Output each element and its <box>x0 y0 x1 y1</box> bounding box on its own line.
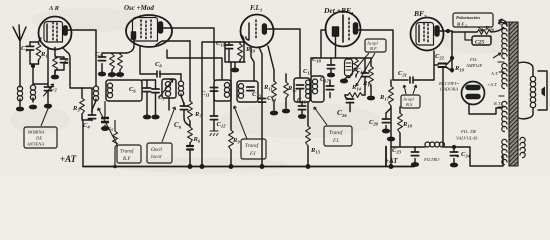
capacitor C16 <box>298 102 305 118</box>
capacitor C22 <box>434 59 452 71</box>
label box Polarizacion BF2 <box>453 13 510 31</box>
capacitor C10 <box>225 42 232 62</box>
IF transformer T1 primary box <box>214 80 231 101</box>
tube V2 inner can <box>133 18 158 42</box>
grid circuit of V3: wire <box>214 35 245 81</box>
bypass capacitor C3 <box>55 57 68 73</box>
tube V1 plate <box>64 26 68 35</box>
coupling capacitor C21 <box>393 51 434 83</box>
ground <box>271 111 278 114</box>
ground <box>99 72 106 75</box>
ground blob on rail riser <box>388 137 395 140</box>
capacitor C23 <box>411 147 418 163</box>
label box Transf RF <box>98 108 141 163</box>
blocking capacitor to rail <box>187 146 193 150</box>
variable capacitor C2 <box>44 84 54 103</box>
resistor R6 <box>188 127 193 143</box>
ground <box>451 163 458 166</box>
capacitor C25 box <box>472 36 491 45</box>
labels right half <box>60 6 501 165</box>
winding group 2 <box>502 63 507 88</box>
power transformer core <box>509 22 518 166</box>
grid resistor feed wire V2 <box>102 53 126 72</box>
wire V2 cathode lead <box>126 39 134 53</box>
label box Transf FI 1 <box>234 106 266 159</box>
resistor R17 <box>389 80 394 167</box>
capacitor C15 <box>296 85 303 103</box>
IF transformer T3 primary box <box>294 78 310 102</box>
resistor R14 <box>354 58 359 77</box>
capacitor C4 <box>82 88 96 121</box>
tube V4 Det+BF2 envelope <box>326 12 361 47</box>
ground <box>109 73 116 76</box>
wire oscillator bottom <box>168 98 170 110</box>
resistor R5 <box>118 53 123 72</box>
speaker bracket <box>538 71 547 110</box>
tube V5 BF2 envelope <box>411 18 444 51</box>
resistor R11 <box>268 46 276 110</box>
wire V2 screen bend <box>156 41 190 45</box>
filter choke <box>425 142 444 147</box>
tube V1 grid (dots) <box>53 22 57 41</box>
tube V3 FI envelope <box>241 15 274 48</box>
ground <box>383 129 390 132</box>
ground <box>52 75 59 78</box>
tube V1 cathode <box>46 24 48 41</box>
tube V2 plate <box>159 22 163 33</box>
ground <box>17 107 24 110</box>
filament supply loop <box>460 147 503 166</box>
label box Transf FI 2 <box>314 107 352 146</box>
resistor R16 <box>369 58 374 95</box>
label box Acopl BF lower <box>401 85 420 108</box>
long vertical to rail (AVC line) <box>202 42 214 167</box>
arrow C24 pointer <box>456 155 459 157</box>
antenna coil primary L1 <box>17 86 22 106</box>
capacitor C1 <box>26 42 33 64</box>
capacitor C5 <box>98 57 105 61</box>
T3 secondary coil <box>312 79 317 94</box>
RF transformer secondary box <box>106 80 142 101</box>
ground <box>45 104 52 107</box>
tube V4 center electrode <box>342 15 344 42</box>
resistor R3 <box>80 88 85 118</box>
long supply wire down to filter <box>442 68 444 147</box>
capacitor C17 <box>326 80 333 98</box>
T2 coil <box>238 84 243 99</box>
resistor R12 <box>284 74 289 108</box>
potentiometer R4 <box>113 120 118 167</box>
speaker wires <box>519 62 534 119</box>
paper background <box>0 0 550 176</box>
blocking capacitor C8b <box>101 101 109 130</box>
wire grid network to tube V1 <box>30 38 41 67</box>
ground <box>328 73 335 76</box>
capacitor C9 osc grid <box>180 103 190 126</box>
wire V5 plate to output transformer <box>439 31 477 32</box>
main +AT rail <box>83 147 414 167</box>
tube V3 grid dots <box>255 20 257 38</box>
ground <box>30 105 37 108</box>
capacitor C18 <box>327 58 334 74</box>
antenna coil secondary L2 <box>30 67 35 102</box>
resistor R7 <box>188 101 193 121</box>
screen supply wire <box>167 50 222 79</box>
oscillator coil box <box>162 79 176 98</box>
oscillator tickler coil <box>178 74 184 105</box>
resistor R9 <box>229 81 234 167</box>
oscillator grid capacitor C9 <box>157 71 181 77</box>
resistor R1 <box>36 42 41 64</box>
rectifier tube V6 envelope <box>462 82 485 105</box>
ground <box>368 96 375 99</box>
capacitor C12 <box>210 101 218 136</box>
wire V1 grid lead down <box>33 48 48 85</box>
capacitor C20 <box>382 108 391 129</box>
wire to +AT rail <box>82 118 83 167</box>
wire V4 plate to coupling <box>358 30 393 80</box>
wire V2 plate to IF1 primary <box>163 28 214 80</box>
resistor R13 <box>306 102 311 167</box>
filament winding bottom <box>502 139 507 164</box>
volume control R15 <box>345 93 365 98</box>
wire V5 cathode network <box>451 31 453 72</box>
antenna <box>13 25 26 87</box>
tube V4 plate <box>354 23 358 34</box>
ground <box>152 115 159 118</box>
capacitor C11 <box>210 88 217 92</box>
tube V1 inner can <box>44 22 63 43</box>
T1 primary coil <box>224 83 229 98</box>
ground <box>117 73 124 76</box>
tube V4 grid dots <box>348 18 350 40</box>
tube V4 diode plate left <box>333 27 339 36</box>
capacitor C26 <box>345 95 354 112</box>
tube V5 plate <box>435 26 439 36</box>
HV secondary winding top <box>502 23 507 58</box>
output transformer secondary (speaker) <box>530 76 535 107</box>
RF transformer secondary coil <box>107 83 112 98</box>
node junction <box>32 65 35 68</box>
transformer secondary right winding <box>520 137 525 157</box>
tube V3 cathode <box>246 23 249 40</box>
tube V3 plate <box>263 24 267 34</box>
tube V2 grids (dots) <box>141 20 151 39</box>
speaker glyph <box>542 87 546 97</box>
ground <box>232 68 239 71</box>
cathode resistor R2 of V1 <box>53 48 58 75</box>
label box Oscil locor <box>147 107 176 163</box>
label box Acopl BF upper <box>348 39 386 86</box>
wire screen line down <box>189 41 191 101</box>
wire V1 plate to RF transformer <box>67 30 96 86</box>
label box Bobina de Antena <box>24 106 57 148</box>
ground <box>144 115 151 118</box>
trimmer arrow <box>160 80 174 98</box>
tube V5 cathode <box>418 25 420 42</box>
resistor R10 <box>238 42 243 62</box>
wire diode load network <box>311 30 352 76</box>
winding group 3 <box>502 101 507 131</box>
tuning capacitor C6 <box>142 80 156 115</box>
capacitor C24 <box>450 147 457 163</box>
capacitor C19 <box>361 58 368 95</box>
tube V5 grid dots <box>424 23 428 42</box>
T3 primary coil <box>306 80 311 98</box>
rectifier anode bars <box>466 86 480 90</box>
diode load resistor box <box>345 59 353 76</box>
padder capacitor C7 <box>152 80 159 115</box>
wire V3 cathode leads down <box>251 47 254 81</box>
ground <box>412 163 419 166</box>
IF transformer T2 secondary box <box>237 81 258 102</box>
capacitor C13 <box>247 87 254 91</box>
transformer tap stubs <box>498 62 504 107</box>
rectifier leads <box>469 104 502 114</box>
wire V3 plate to IF2 primary <box>266 29 300 78</box>
resistor R20 <box>477 28 504 35</box>
IF transformer T3 secondary box <box>311 76 324 102</box>
fil amplif arrow <box>493 53 501 58</box>
tube V5 inner can <box>416 23 434 46</box>
RF transformer primary coil <box>92 86 99 112</box>
wire V2 grid leads down <box>140 47 156 75</box>
tube V1 AR envelope <box>39 17 72 50</box>
ground <box>283 109 290 112</box>
capacitor C14 <box>258 99 265 103</box>
oscillator coil winding <box>165 82 170 97</box>
resistor R18 <box>398 107 403 146</box>
tube V2 Osc+Mod envelope <box>126 15 172 47</box>
tube V2 cathode box <box>132 32 136 39</box>
wire V1 screen lead <box>63 48 82 88</box>
resistor R4 <box>110 53 115 72</box>
